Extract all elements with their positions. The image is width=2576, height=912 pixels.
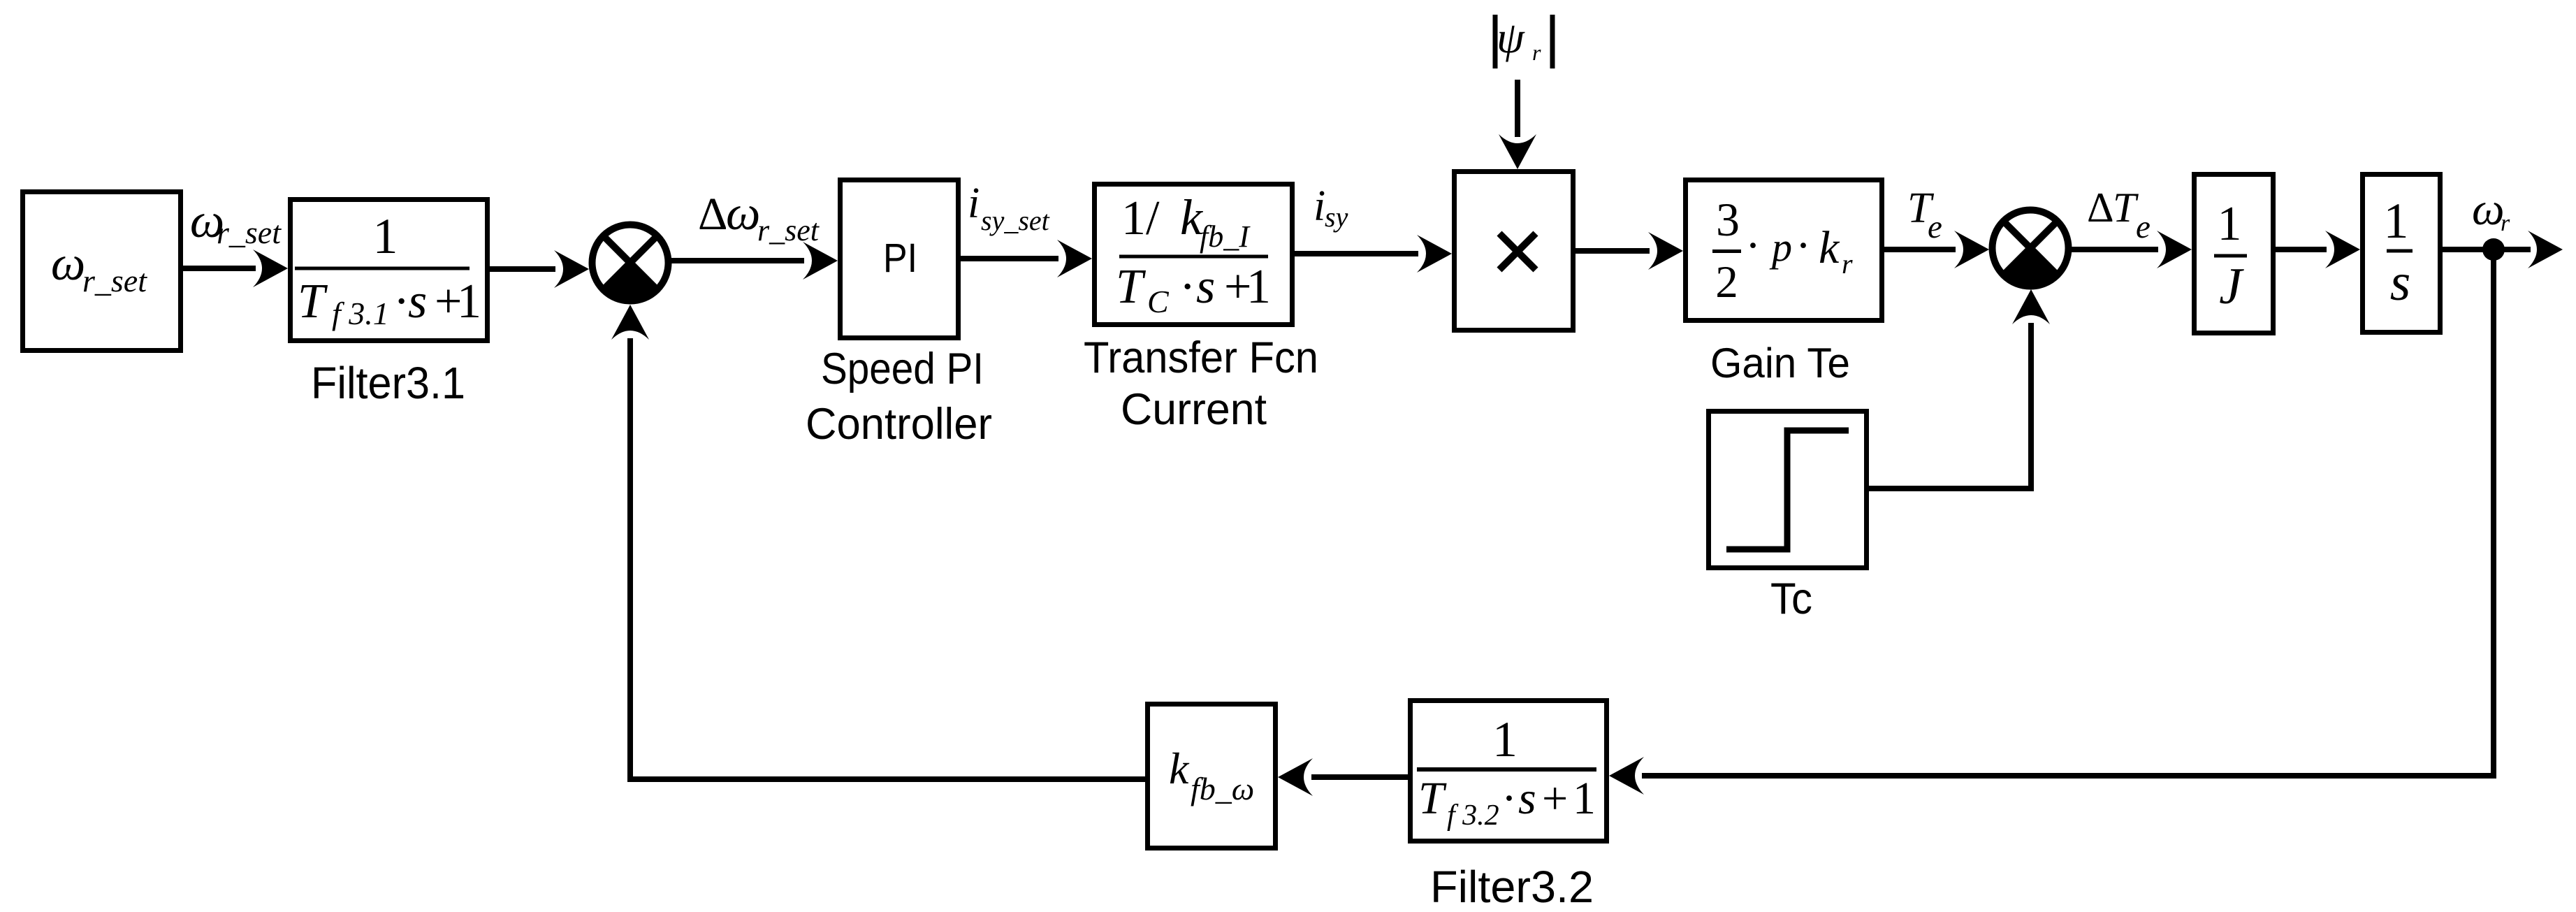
svg-text:sy_set: sy_set — [981, 205, 1050, 236]
wire feedback bottom to Filter3.2 — [1642, 773, 2496, 779]
svg-text:2: 2 — [1715, 257, 1738, 307]
svg-text:p: p — [1769, 224, 1792, 270]
svg-text:1: 1 — [2384, 193, 2409, 249]
block 1/s — [2363, 175, 2440, 333]
wire Filter3.2 to k_fb_omega — [1311, 774, 1408, 780]
svg-text:k: k — [1819, 222, 1840, 273]
wire feedback vertical right — [2491, 249, 2496, 776]
svg-text:1: 1 — [1246, 260, 1271, 314]
svg-text:r: r — [1532, 40, 1541, 65]
svg-text:ω: ω — [51, 237, 85, 291]
block k_fb_omega — [1148, 704, 1276, 848]
wire Transfer Fcn to multiplier — [1295, 251, 1418, 256]
summing junction sum2 — [1993, 210, 2069, 287]
svg-text:Transfer Fcn: Transfer Fcn — [1084, 333, 1318, 382]
svg-text:f 3.1: f 3.1 — [332, 296, 389, 331]
block PI Speed PI Controller — [841, 180, 959, 338]
svg-text:fb_I: fb_I — [1200, 219, 1251, 254]
svg-text:i: i — [968, 180, 980, 227]
svg-text:·: · — [1796, 220, 1811, 271]
svg-text:1: 1 — [1121, 191, 1146, 245]
block source omega_r_set — [23, 192, 181, 351]
svg-text:Filter3.1: Filter3.1 — [311, 358, 465, 408]
svg-text:f 3.2: f 3.2 — [1447, 799, 1499, 832]
multiply sign — [1499, 233, 1536, 270]
svg-text:/: / — [1146, 191, 1160, 245]
svg-text:·: · — [1745, 220, 1761, 271]
svg-text:ω: ω — [726, 187, 760, 240]
block Gain Te — [1686, 180, 1882, 321]
wire psi_r into multiplier — [1515, 80, 1520, 137]
svg-text:T: T — [298, 275, 328, 328]
svg-text:s: s — [2390, 253, 2411, 312]
fraction bar 3/2 — [1712, 249, 1741, 253]
svg-text:·: · — [1179, 260, 1195, 314]
svg-text:fb_ω: fb_ω — [1191, 771, 1254, 806]
svg-text:k: k — [1169, 744, 1190, 793]
svg-text:Tc: Tc — [1770, 574, 1812, 623]
svg-text:PI: PI — [883, 236, 917, 281]
fraction bar Transfer Fcn — [1119, 255, 1268, 259]
fraction bar 1/J — [2214, 254, 2247, 258]
svg-text:1: 1 — [2218, 197, 2242, 251]
svg-text:r_set: r_set — [217, 215, 282, 250]
svg-text:i: i — [1314, 182, 1325, 230]
fraction bar 1/s — [2387, 249, 2413, 253]
fraction bar Filter3.2 — [1417, 767, 1596, 772]
svg-text:Speed PI: Speed PI — [821, 345, 984, 393]
svg-text:+: + — [1542, 773, 1568, 824]
wire source to Filter3.1 — [183, 266, 256, 271]
node omega_r junction dot — [2482, 238, 2505, 261]
svg-text:J: J — [2219, 258, 2244, 315]
svg-text:1: 1 — [1492, 711, 1518, 767]
wire sum1 to PI — [671, 258, 804, 263]
svg-text:1: 1 — [373, 208, 398, 264]
svg-text:ψ: ψ — [1497, 13, 1525, 62]
svg-text:Controller: Controller — [806, 400, 992, 449]
svg-text:r: r — [2501, 210, 2510, 236]
svg-text:Gain Te: Gain Te — [1710, 340, 1850, 386]
svg-text:r_set: r_set — [82, 263, 147, 298]
wire k_fb_omega to sum1 feedback — [627, 776, 1145, 782]
wire sum2 to 1/J — [2072, 247, 2158, 252]
wire PI to Transfer Fcn — [961, 256, 1058, 261]
step icon Tc — [1726, 430, 1849, 549]
block 1/J — [2195, 175, 2273, 333]
block multiplier — [1455, 172, 1573, 331]
svg-text:T: T — [1418, 773, 1447, 824]
svg-text:·: · — [393, 275, 409, 328]
svg-text:C: C — [1147, 284, 1170, 319]
net label |psi_r| right bar — [1550, 15, 1555, 68]
net label |psi_r| left bar — [1493, 15, 1498, 68]
svg-text:s: s — [408, 275, 427, 328]
svg-text:r: r — [1842, 248, 1853, 280]
wire 1/J to 1/s — [2276, 247, 2327, 252]
output arrowhead — [2528, 231, 2563, 268]
wire 1/s to output — [2443, 247, 2531, 252]
svg-text:1: 1 — [1573, 773, 1596, 824]
block Tc — [1709, 412, 1867, 568]
summing junction sum1 — [592, 225, 669, 301]
block Transfer Fcn Current — [1095, 184, 1293, 325]
svg-text:Current: Current — [1121, 385, 1267, 434]
svg-text:ω: ω — [2472, 184, 2505, 235]
svg-text:s: s — [1518, 773, 1536, 824]
svg-text:·: · — [1501, 773, 1517, 824]
block Filter3.2 — [1411, 701, 1607, 841]
svg-text:Filter3.2: Filter3.2 — [1430, 862, 1594, 912]
svg-text:e: e — [2136, 209, 2151, 245]
wire Filter3.1 to sum1 — [490, 266, 555, 272]
svg-text:1: 1 — [457, 275, 481, 328]
svg-text:3: 3 — [1716, 193, 1740, 246]
svg-text:e: e — [1928, 209, 1942, 245]
wire Tc to sum2 — [1869, 486, 2028, 491]
svg-text:r_set: r_set — [757, 213, 820, 247]
svg-text:Δ: Δ — [698, 189, 727, 240]
wire multiplier to Gain Te — [1576, 248, 1650, 254]
fraction bar Filter3.1 — [295, 267, 470, 270]
wire Gain Te to sum2 — [1884, 247, 1956, 252]
block Filter3.1 — [291, 200, 488, 341]
svg-text:Δ: Δ — [2087, 184, 2114, 231]
svg-text:T: T — [1116, 260, 1147, 314]
svg-text:T: T — [2113, 184, 2139, 231]
svg-text:sy: sy — [1325, 201, 1348, 233]
svg-text:s: s — [1196, 260, 1215, 314]
